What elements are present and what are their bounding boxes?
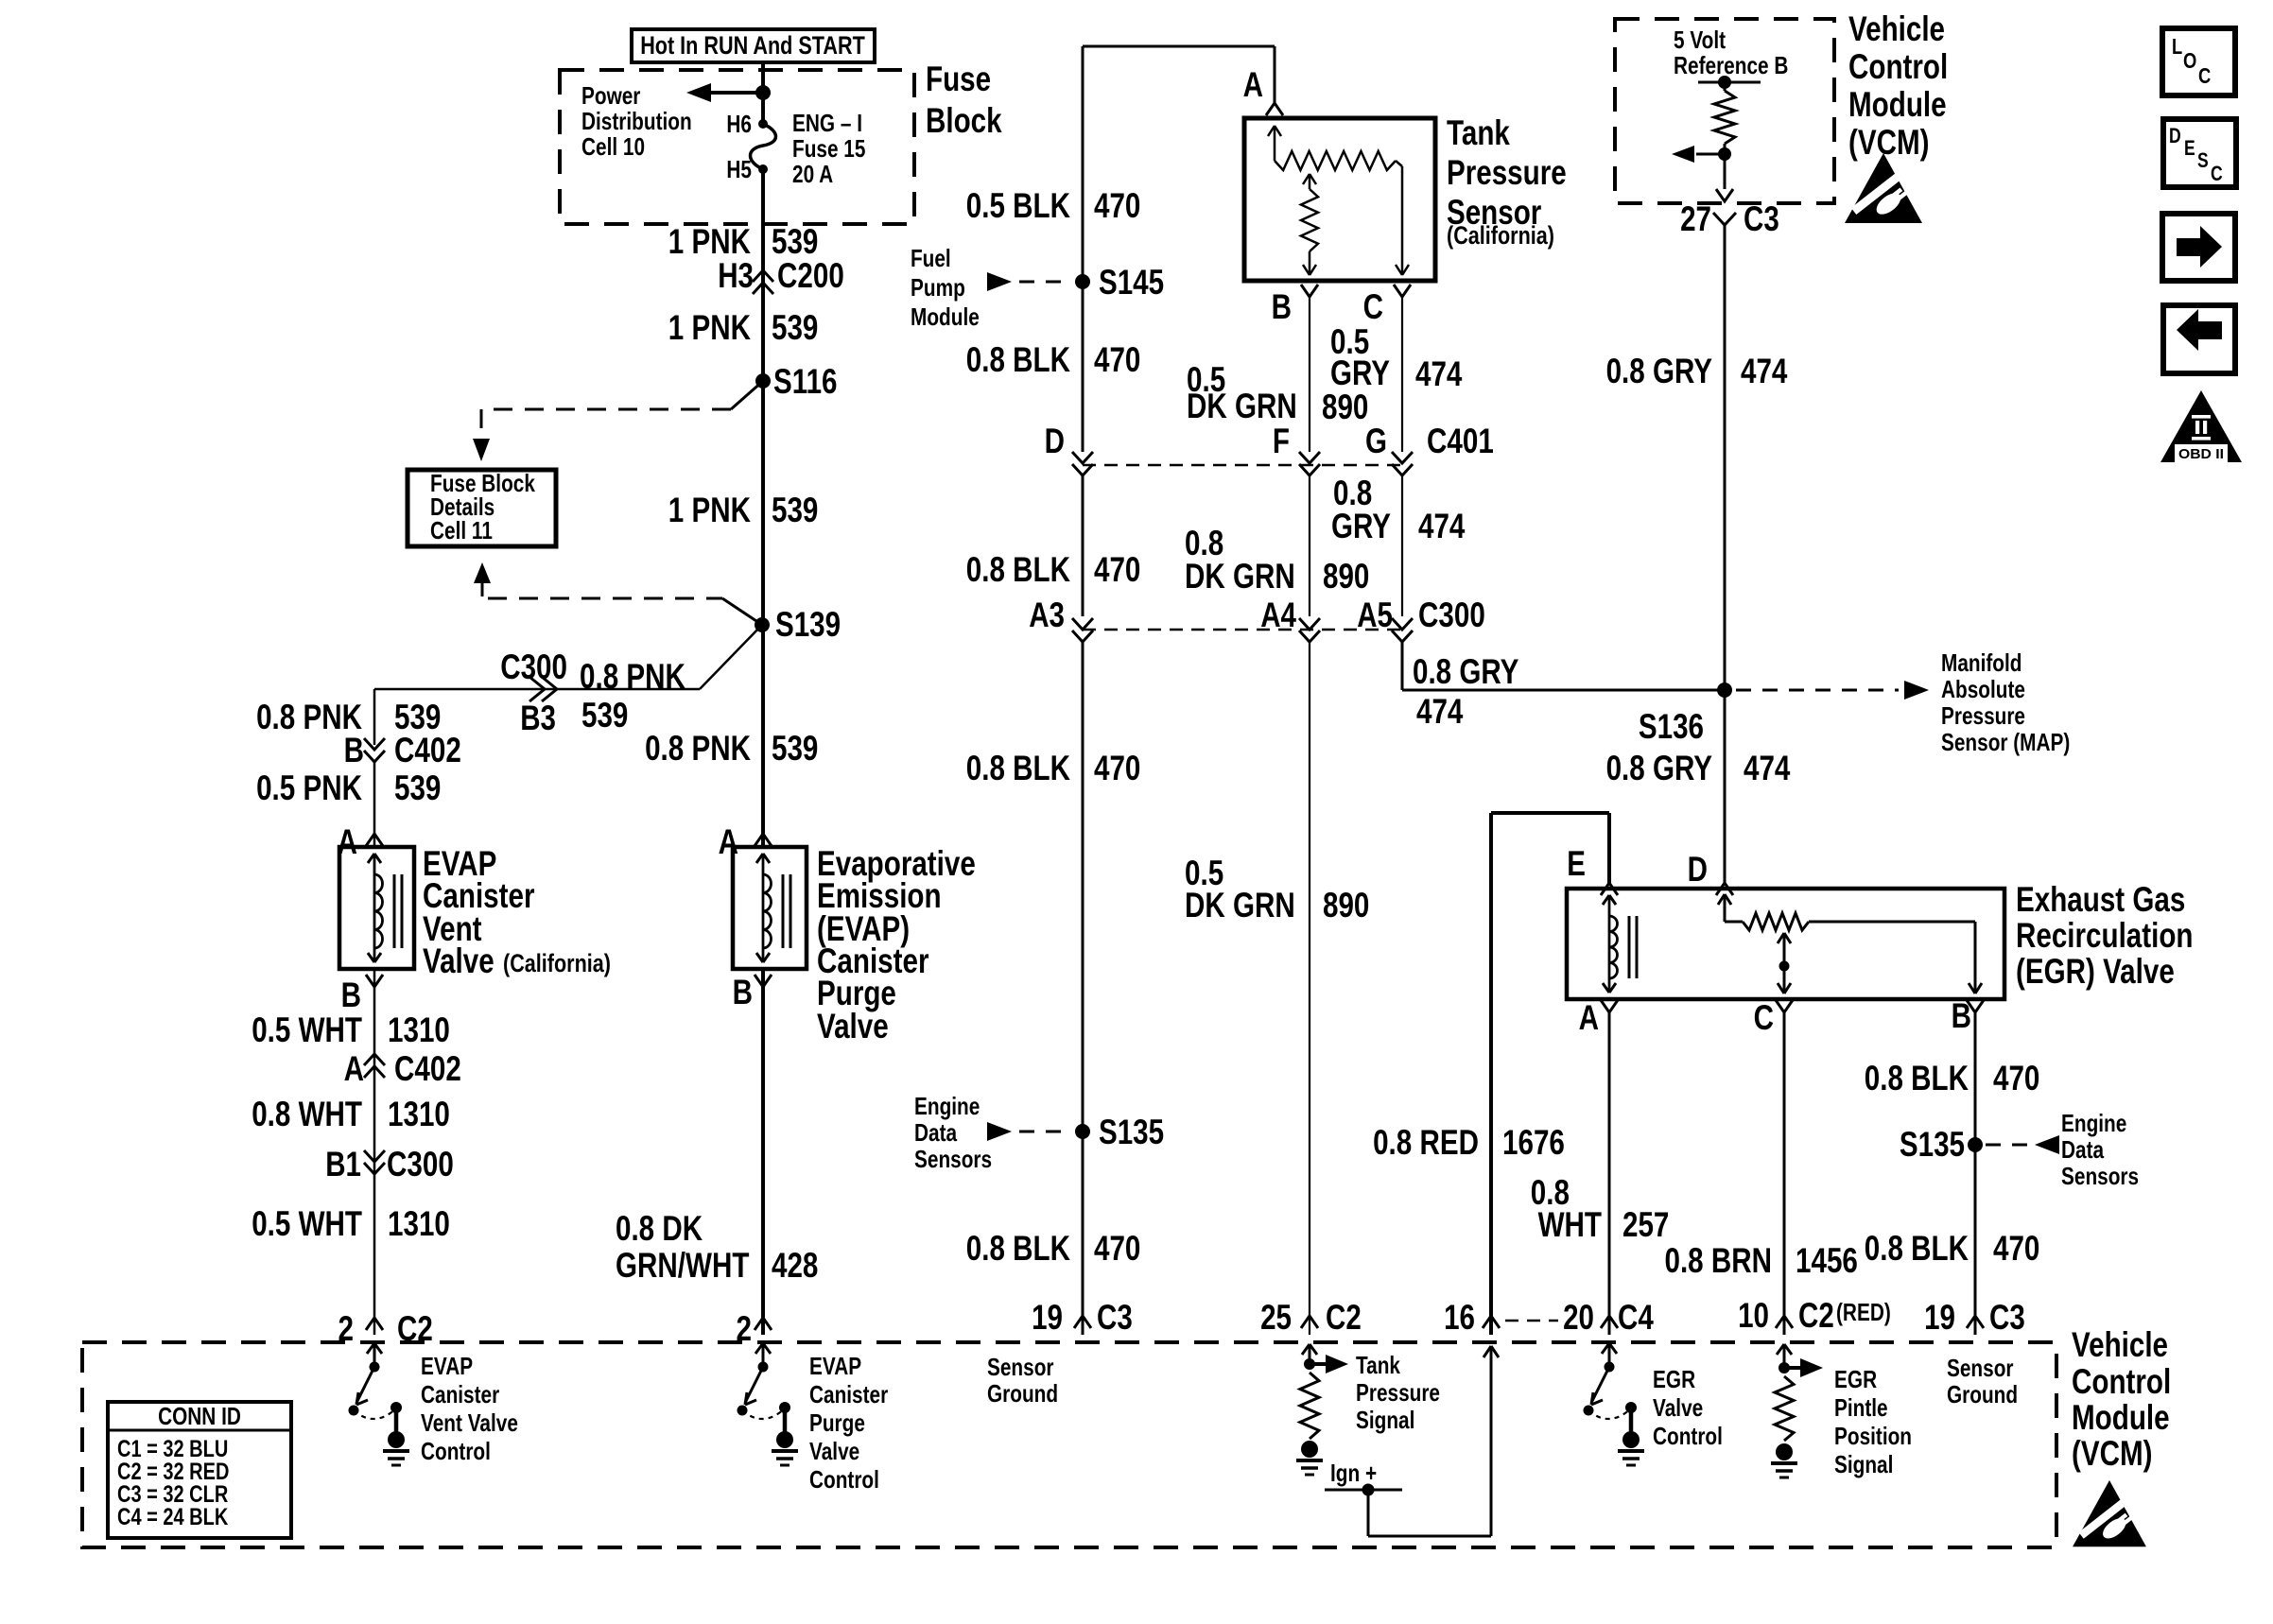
engine data sensors reference (right) (1986, 1109, 2139, 1190)
svg-text:2: 2 (737, 1309, 753, 1348)
svg-text:E: E (1567, 844, 1586, 883)
svg-text:C4 = 24 BLK: C4 = 24 BLK (117, 1504, 228, 1530)
svg-text:GRY: GRY (1331, 507, 1391, 545)
svg-text:Hot In RUN And START: Hot In RUN And START (640, 31, 865, 60)
svg-text:20: 20 (1563, 1298, 1594, 1337)
svg-text:C: C (1754, 998, 1774, 1037)
svg-text:428: 428 (772, 1246, 818, 1285)
label 1 PNK 539 (668, 222, 819, 261)
svg-text:G: G (1365, 422, 1387, 460)
svg-text:D: D (2169, 124, 2181, 147)
wire 0.5 PNK 539 (C402 to valve pin A) (373, 762, 376, 847)
svg-text:DK GRN: DK GRN (1185, 557, 1295, 596)
connector C300 pin A4 (1260, 596, 1320, 642)
wire 0.8 GRY 474 (C401 to C300) (1401, 475, 1403, 616)
svg-text:Tank: Tank (1447, 113, 1510, 152)
svg-text:C402: C402 (394, 731, 461, 769)
dashed reference from Fuse Block Details to S139 (474, 562, 762, 625)
svg-text:C2: C2 (1326, 1298, 1362, 1337)
svg-text:C3: C3 (1097, 1298, 1133, 1337)
svg-text:0.5 WHT: 0.5 WHT (252, 1011, 362, 1049)
wire 0.8 PNK 539 (S139 to C300 jog) (374, 625, 762, 689)
svg-text:B3: B3 (520, 699, 556, 737)
svg-text:Control: Control (2072, 1362, 2171, 1401)
svg-text:Pressure: Pressure (1941, 701, 2025, 730)
connector C401 pin G (1365, 422, 1494, 475)
svg-text:(RED): (RED) (1836, 1298, 1891, 1326)
svg-text:Ground: Ground (987, 1379, 1058, 1408)
svg-text:Canister: Canister (421, 1380, 499, 1408)
label 0.8 GRY 474 (1606, 352, 1788, 390)
label 0.8 WHT 257 (1531, 1173, 1670, 1244)
connector C300 pin B1 (in-line) (325, 1145, 454, 1183)
svg-text:Control: Control (421, 1437, 491, 1465)
svg-text:C200: C200 (777, 256, 844, 295)
svg-text:B: B (733, 973, 753, 1011)
svg-text:1310: 1310 (388, 1095, 450, 1133)
wire (761, 62, 765, 124)
svg-text:Position: Position (1834, 1422, 1912, 1450)
connector C401 dashed line (1083, 464, 1402, 467)
VCM pin 19 C3 (1032, 1298, 1133, 1337)
wire 0.8 PNK 539 (S139 to purge valve pin A) (761, 625, 765, 847)
label 0.8 WHT 1310 (252, 1095, 450, 1133)
svg-text:Valve: Valve (423, 942, 495, 980)
svg-text:Module: Module (911, 302, 980, 331)
wire 0.5 GRY 474 (pin C to C401 G) (1401, 297, 1403, 452)
svg-text:Pump: Pump (911, 273, 965, 302)
fuse block (dashed outline) (560, 70, 914, 224)
svg-text:A: A (1579, 998, 1599, 1037)
VCM pin 10 C2 (RED) (1738, 1296, 1891, 1335)
icon: LOC (2162, 28, 2235, 95)
VCM pin 2 C2 (338, 1309, 433, 1348)
svg-text:ENG – I: ENG – I (792, 109, 862, 137)
wire 0.5 DK GRN 890 (C300 down to pin 25) (1309, 641, 1310, 1335)
EVAP canister purge valve (solenoid) (733, 847, 807, 969)
svg-text:470: 470 (1993, 1229, 2039, 1268)
wire 0.8 PNK 539 (down to C402) (373, 689, 376, 745)
splice S116 (755, 362, 838, 401)
svg-text:Valve: Valve (1653, 1393, 1703, 1422)
vehicle control module (VCM) dashed box (82, 1342, 2056, 1547)
svg-text:Distribution: Distribution (581, 107, 692, 135)
svg-text:Engine: Engine (2061, 1109, 2126, 1137)
pin A of tank pressure sensor (1243, 65, 1283, 115)
label 0.5 WHT 1310 (252, 1204, 450, 1243)
svg-text:Fuse 15: Fuse 15 (792, 134, 865, 163)
svg-text:Signal: Signal (1834, 1450, 1893, 1478)
connector dashed segment between pins 16 and 20 (1505, 1320, 1558, 1322)
EGR pin E (1567, 844, 1618, 895)
svg-text:WHT: WHT (1538, 1205, 1603, 1244)
icon: arrow left (2163, 305, 2235, 373)
svg-text:0.8 PNK: 0.8 PNK (645, 729, 751, 768)
svg-text:C: C (1363, 287, 1383, 326)
text: Exhaust Gas Recirculation (EGR) Valve (2016, 880, 2194, 991)
svg-text:C3: C3 (1744, 199, 1779, 238)
label 0.5 DK GRN 890 (1185, 854, 1369, 924)
label 0.8 BRN 1456 (1665, 1241, 1858, 1280)
svg-text:S135: S135 (1900, 1125, 1965, 1164)
svg-text:474: 474 (1741, 352, 1788, 390)
svg-text:A: A (719, 822, 738, 861)
svg-text:Exhaust Gas: Exhaust Gas (2016, 880, 2185, 919)
label 0.5 BLK 470 (966, 186, 1141, 225)
svg-text:Pintle: Pintle (1834, 1393, 1888, 1422)
svg-text:1456: 1456 (1796, 1241, 1858, 1280)
svg-text:B: B (341, 976, 361, 1014)
svg-text:CONN ID: CONN ID (158, 1402, 241, 1430)
svg-text:Vehicle: Vehicle (2072, 1325, 2168, 1364)
connector C402 pin A (in-line) (344, 1049, 461, 1088)
svg-text:Reference B: Reference B (1674, 51, 1788, 79)
svg-text:Pressure: Pressure (1356, 1378, 1440, 1407)
svg-text:(EGR) Valve: (EGR) Valve (2016, 952, 2175, 991)
svg-text:539: 539 (772, 308, 818, 347)
svg-text:H6: H6 (726, 110, 752, 138)
fuse ENG-I Fuse 15 20A (symbol H6-H5) (751, 119, 776, 174)
svg-text:Canister: Canister (809, 1380, 888, 1408)
connector C300 pin A5 (1357, 596, 1485, 642)
label 0.5 WHT 1310 (252, 1011, 450, 1049)
wire 0.8 WHT 257 (EGR pin A to pin 20) (1608, 1012, 1611, 1335)
text: Vehicle Control Module (VCM) (bottom) (2072, 1325, 2171, 1473)
VCM pin 16 (1444, 1298, 1500, 1337)
wire 0.8 BLK 470 (C300 down to pin 19) (1082, 641, 1084, 1335)
connector C401 pin F (1273, 422, 1320, 475)
wire 1 PNK 539 (fuse H5 down to S116) (761, 169, 765, 381)
VCM pin 20 C4 (1563, 1298, 1654, 1337)
svg-text:C300: C300 (500, 648, 567, 686)
svg-text:Engine: Engine (914, 1092, 980, 1120)
connector C401 pin D (1045, 422, 1093, 475)
pin B of EVAP vent valve (341, 975, 383, 1014)
svg-text:(California): (California) (503, 949, 611, 977)
svg-text:A: A (344, 1049, 364, 1088)
svg-text:539: 539 (581, 696, 628, 734)
label 0.8 BLK 470 (966, 749, 1141, 787)
5 volt reference rail (1698, 76, 1761, 89)
svg-text:474: 474 (1415, 354, 1463, 393)
svg-text:1676: 1676 (1502, 1123, 1565, 1162)
svg-text:C2: C2 (1798, 1296, 1834, 1335)
svg-text:B: B (1952, 996, 1971, 1035)
svg-text:(VCM): (VCM) (2072, 1434, 2153, 1473)
fuel pump module reference (911, 244, 1070, 331)
svg-text:Valve: Valve (809, 1437, 859, 1465)
svg-text:Power: Power (581, 81, 640, 110)
svg-text:Absolute: Absolute (1941, 675, 2025, 703)
svg-text:EVAP: EVAP (421, 1352, 473, 1380)
svg-text:Sensor: Sensor (987, 1353, 1054, 1381)
label 0.5 GRY 474 (1330, 322, 1463, 393)
svg-text:20 A: 20 A (792, 160, 833, 188)
svg-text:Control: Control (809, 1465, 879, 1494)
icon: arrow right (2162, 214, 2235, 281)
wire 1 PNK 539 (S116 down to S139) (761, 381, 765, 625)
text: Fuse Block (926, 60, 1002, 140)
CONN ID table (108, 1402, 291, 1538)
svg-text:Recirculation: Recirculation (2016, 916, 2194, 955)
wire 0.5 DK GRN 890 (pin B to C401 F) (1309, 297, 1310, 452)
EGR pintle position signal input (resistor to ground) (1771, 1344, 1912, 1478)
svg-text:C4: C4 (1618, 1298, 1654, 1337)
svg-text:25: 25 (1260, 1298, 1292, 1337)
svg-text:H5: H5 (726, 155, 752, 183)
EVAP canister vent valve (solenoid) (339, 847, 414, 969)
svg-text:S136: S136 (1639, 707, 1704, 746)
svg-text:Ign +: Ign + (1330, 1459, 1377, 1487)
tank pressure sensor (potentiometer) (1244, 118, 1435, 281)
wire 0.8 RED 1676 (EGR pin E loop to pin 16) (1491, 813, 1609, 1335)
text: Sensor Ground (right) (1947, 1354, 2018, 1408)
svg-text:(VCM): (VCM) (1848, 123, 1930, 162)
label 0.8 RED 1676 (1373, 1123, 1565, 1162)
svg-text:A4: A4 (1260, 596, 1296, 634)
svg-text:Control: Control (1848, 47, 1948, 86)
svg-text:S145: S145 (1099, 263, 1164, 302)
svg-text:A: A (1243, 65, 1263, 104)
wire 0.5 WHT 1310 (373, 969, 376, 1335)
svg-text:0.8 BLK: 0.8 BLK (966, 550, 1070, 589)
svg-text:Vent Valve: Vent Valve (421, 1408, 518, 1437)
EGR pin C (1754, 998, 1793, 1037)
pin A of EVAP purge valve (719, 822, 772, 861)
svg-text:890: 890 (1323, 886, 1369, 924)
label 0.8 BLK 470 (1865, 1229, 2040, 1268)
wire 0.8 GRY 474 (pin 27 to S136) (1724, 225, 1726, 690)
svg-text:890: 890 (1323, 557, 1369, 596)
svg-text:C402: C402 (394, 1049, 461, 1088)
svg-text:Valve: Valve (817, 1007, 889, 1045)
svg-text:Sensors: Sensors (914, 1145, 992, 1173)
connector C300 pin B3 (in-line) (529, 677, 545, 701)
label 0.8 GRY 474 (1331, 474, 1466, 545)
connector C200 pin H3 (718, 256, 844, 295)
svg-text:DK GRN: DK GRN (1185, 886, 1295, 924)
svg-text:C: C (2211, 162, 2223, 185)
svg-text:OBD II: OBD II (2178, 446, 2224, 462)
label box: Hot In RUN And START (632, 29, 875, 62)
label 0.5 PNK 539 (256, 769, 441, 807)
svg-text:539: 539 (394, 769, 441, 807)
svg-text:Module: Module (2072, 1398, 2170, 1437)
label 1 PNK 539 (668, 308, 819, 347)
wire 0.8 BLK 470 (EGR pin B down to pin 19) (1974, 1012, 1977, 1335)
svg-text:Vehicle: Vehicle (1848, 9, 1945, 48)
svg-text:539: 539 (772, 222, 818, 261)
svg-text:Data: Data (2061, 1135, 2105, 1164)
svg-text:470: 470 (1094, 186, 1140, 225)
svg-text:Ground: Ground (1947, 1380, 2018, 1408)
svg-text:0.8 BLK: 0.8 BLK (1865, 1059, 1969, 1097)
splice S145 (1075, 263, 1164, 302)
VCM pin 25 C2 (1260, 1298, 1362, 1337)
dashed reference from S116 to Fuse Block Details (473, 381, 763, 461)
svg-text:S135: S135 (1099, 1113, 1164, 1151)
svg-text:L: L (2172, 34, 2182, 59)
text: Tank Pressure Sensor (California) (1447, 113, 1567, 250)
svg-text:0.8 DK: 0.8 DK (616, 1209, 703, 1248)
label 0.8 BLK 470 (966, 550, 1141, 589)
svg-text:0.8 WHT: 0.8 WHT (252, 1095, 362, 1133)
svg-text:Tank: Tank (1356, 1351, 1400, 1379)
wire 0.8 DK GRN 890 (C401 to C300) (1309, 475, 1310, 616)
wire 0.8 DK GRN/WHT 428 (761, 969, 765, 1335)
splice S135 (1075, 1113, 1164, 1151)
wire 0.8 GRY 474 (S136 to EGR pin D) (1724, 690, 1726, 883)
svg-text:257: 257 (1622, 1205, 1669, 1244)
connector C402 pin B (in-line) (344, 731, 461, 769)
svg-text:539: 539 (772, 729, 818, 768)
svg-text:10: 10 (1738, 1296, 1769, 1335)
svg-text:Signal: Signal (1356, 1406, 1414, 1434)
vehicle control module (VCM) top dashed box (1615, 19, 1834, 203)
EGR pin A (1579, 998, 1618, 1037)
svg-text:Data: Data (914, 1118, 958, 1147)
pin A of EVAP vent valve (338, 822, 383, 861)
svg-text:0.8 GRY: 0.8 GRY (1606, 352, 1713, 390)
svg-text:GRY: GRY (1330, 354, 1390, 392)
svg-text:E: E (2184, 136, 2195, 160)
text: Power Distribution Cell 10 (581, 81, 692, 161)
svg-text:890: 890 (1322, 388, 1368, 426)
svg-text:0.8 BLK: 0.8 BLK (1865, 1229, 1969, 1268)
ESD sensitivity logo (top) (1845, 153, 1922, 223)
pin B of tank pressure sensor (1272, 285, 1318, 326)
svg-text:1310: 1310 (388, 1011, 450, 1049)
svg-text:1 PNK: 1 PNK (668, 491, 751, 529)
wire 0.8 BLK 470 (C401 to C300) (1082, 475, 1084, 616)
icon: OBD II triangle (2160, 390, 2242, 462)
svg-text:0.8 BRN: 0.8 BRN (1665, 1241, 1773, 1280)
svg-text:0.8 GRY: 0.8 GRY (1606, 749, 1713, 787)
svg-text:A3: A3 (1029, 596, 1065, 634)
power distribution feed wire with arrow (686, 83, 771, 102)
svg-text:0.8 BLK: 0.8 BLK (966, 340, 1070, 379)
svg-text:19: 19 (1032, 1298, 1063, 1337)
label 0.8 BLK 470 (966, 340, 1141, 379)
EGR pin D (1688, 850, 1733, 895)
VCM pin 27 C3 (1680, 199, 1779, 238)
svg-text:1 PNK: 1 PNK (668, 222, 751, 261)
svg-text:H3: H3 (718, 256, 754, 295)
svg-text:Cell 11: Cell 11 (430, 516, 493, 544)
label 0.8 GRY 474 (1606, 749, 1791, 787)
chevron at module edge (1716, 189, 1733, 201)
svg-text:C3: C3 (1989, 1298, 2025, 1337)
text: EVAP Canister Vent Valve (California) (423, 844, 611, 980)
wire (1724, 144, 1726, 189)
svg-text:Cell 10: Cell 10 (581, 132, 645, 161)
VCM pin 19 C3 (right) (1924, 1298, 2025, 1337)
svg-text:0.5 BLK: 0.5 BLK (966, 186, 1070, 225)
label 0.8 BLK 470 (966, 1229, 1141, 1268)
label 0.8 PNK 539 (right of B3) (580, 657, 685, 734)
svg-text:S139: S139 (775, 605, 841, 644)
text: Sensor Ground (left) (987, 1353, 1058, 1408)
wire 0.8 BRN 1456 (EGR pin C to pin 10) (1783, 1012, 1786, 1335)
svg-text:Control: Control (1653, 1422, 1723, 1450)
text: Vehicle Control Module (VCM) (top) (1848, 9, 1948, 162)
text: 5 Volt Reference B (1674, 26, 1788, 79)
svg-text:Sensors: Sensors (2061, 1162, 2139, 1190)
driver switch: EVAP canister vent valve control (373, 1344, 376, 1367)
svg-text:5 Volt: 5 Volt (1674, 26, 1726, 54)
connector C300 dashed line (1083, 629, 1402, 631)
driver switch: EGR valve control (1608, 1344, 1611, 1367)
svg-text:(California): (California) (1447, 221, 1554, 250)
text: ENG - I / Fuse 15 / 20 A (792, 109, 865, 188)
svg-text:F: F (1273, 422, 1290, 460)
svg-text:C401: C401 (1427, 422, 1494, 460)
label 0.5 DK GRN 890 (1187, 360, 1368, 426)
pin C of tank pressure sensor (1363, 285, 1411, 326)
svg-text:O: O (2183, 48, 2196, 73)
label 0.8 GRY 474 (horizontal run) (1413, 652, 1519, 731)
svg-text:A5: A5 (1357, 596, 1393, 634)
svg-text:S116: S116 (773, 362, 838, 401)
svg-text:S: S (2197, 148, 2209, 172)
svg-text:B1: B1 (325, 1145, 361, 1183)
svg-text:0.8 BLK: 0.8 BLK (966, 1229, 1070, 1268)
svg-text:Block: Block (926, 101, 1002, 140)
svg-text:C300: C300 (1418, 596, 1485, 634)
svg-text:Manifold: Manifold (1941, 648, 2022, 677)
label 0.8 DK GRN 890 (1185, 524, 1369, 596)
svg-text:470: 470 (1094, 550, 1140, 589)
svg-text:0.5 WHT: 0.5 WHT (252, 1204, 362, 1243)
svg-text:B: B (344, 731, 364, 769)
svg-text:Fuse: Fuse (926, 60, 991, 98)
wire 0.5 BLK 470 (top run to tank sensor pin A) (1083, 46, 1275, 452)
label 0.8 DK GRN/WHT 428 (616, 1209, 818, 1285)
svg-text:474: 474 (1416, 692, 1464, 731)
wire 0.8 GRY 474 (C300 to S136 run) (1402, 641, 1725, 690)
driver switch: EVAP canister purge valve control (762, 1344, 765, 1367)
splice S139 (755, 605, 841, 644)
svg-text:474: 474 (1418, 507, 1466, 545)
connector C300 pin A3 (1029, 596, 1093, 642)
VCM pin 2 (purge) (737, 1309, 772, 1348)
svg-text:470: 470 (1094, 1229, 1140, 1268)
svg-text:Pressure: Pressure (1447, 153, 1567, 192)
svg-text:C300: C300 (387, 1145, 454, 1183)
svg-text:C: C (2198, 63, 2211, 88)
svg-text:Purge: Purge (809, 1408, 865, 1437)
splice S136 (1639, 682, 1732, 746)
Ign + feed (1325, 1346, 1499, 1536)
svg-text:Fuel: Fuel (911, 244, 951, 272)
svg-text:Module: Module (1848, 85, 1947, 124)
box: Fuse Block Details Cell 11 (408, 469, 556, 546)
svg-text:EVAP: EVAP (809, 1352, 861, 1380)
svg-text:1310: 1310 (388, 1204, 450, 1243)
svg-text:D: D (1045, 422, 1065, 460)
svg-text:Sensor (MAP): Sensor (MAP) (1941, 728, 2070, 756)
pin B of EVAP purge valve (733, 973, 772, 1011)
internal node with arrow (1672, 146, 1731, 163)
manifold absolute pressure sensor reference (1736, 648, 2070, 756)
svg-text:0.8 GRY: 0.8 GRY (1413, 652, 1519, 691)
svg-text:D: D (1688, 850, 1708, 889)
svg-text:0.8 RED: 0.8 RED (1373, 1123, 1479, 1162)
text: Evaporative Emission (EVAP) Canister Purge Valve (817, 844, 976, 1045)
exhaust gas recirculation (EGR) valve (1567, 889, 2004, 999)
svg-text:470: 470 (1094, 340, 1140, 379)
label 0.8 PNK 539 (645, 729, 818, 768)
